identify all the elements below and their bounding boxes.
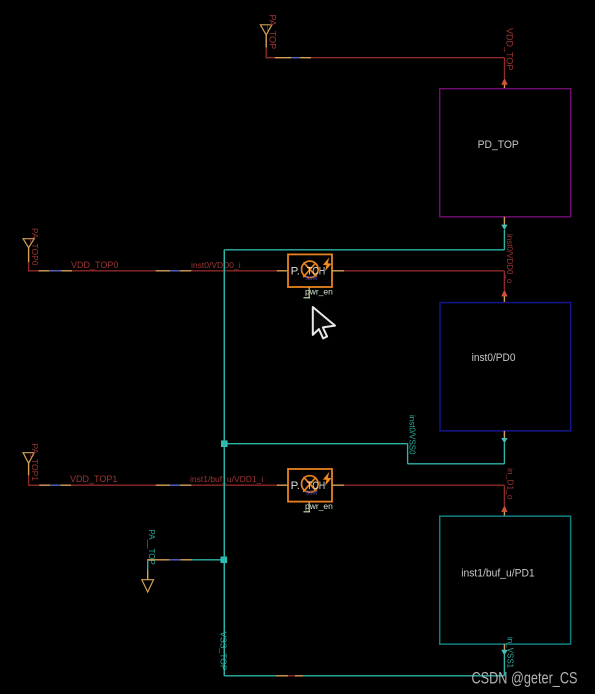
svg-text:pwr_en: pwr_en	[305, 287, 333, 297]
svg-text:VSS_TOP: VSS_TOP	[219, 632, 229, 671]
svg-text:VDD_TOP1: VDD_TOP1	[70, 474, 117, 484]
power switch U0 box	[288, 254, 332, 287]
pin stub inst1 PD1 top	[503, 512, 505, 517]
wire net inst0/VDD0_o horizontal	[344, 270, 504, 272]
wire net VSS_TOP branch vertical	[147, 559, 149, 570]
port PA_TOP0	[23, 239, 34, 248]
pin stub inst0/PD0 bottom	[503, 431, 505, 438]
svg-text:P.: P.	[291, 480, 300, 492]
svg-text:VDD_TOP: VDD_TOP	[505, 28, 515, 70]
wire net inst0/VSS0 upper horizontal	[224, 443, 407, 445]
wire net VDD_TOP1 horizontal	[29, 484, 277, 486]
svg-text:PA_TOP: PA_TOP	[268, 15, 278, 50]
wire net VSS_TOP horizontal top run	[224, 249, 504, 251]
svg-text:inst1/buf_u/PD1: inst1/buf_u/PD1	[461, 568, 535, 580]
switch icon lightning bolt U1	[323, 472, 332, 486]
wire net VSS_TOP branch horizontal	[148, 559, 225, 561]
arrow out of PD_TOP bottom	[501, 225, 507, 230]
wire net inst0/VSS0 lower horizontal	[408, 463, 505, 465]
svg-text:PA_TOP0: PA_TOP0	[30, 228, 40, 266]
dangling marker U0 enable	[304, 297, 311, 299]
switch icon circle U1	[302, 476, 319, 493]
pin stub switch U1 left	[277, 484, 288, 486]
svg-text:inst0/VSS0: inst0/VSS0	[408, 415, 417, 455]
pin stub inst1 PD1 bottom	[503, 644, 505, 650]
wire net in_D1_o horizontal	[344, 484, 504, 486]
arrow into inst0/PD0 top	[501, 290, 507, 297]
power domain box PD_TOP	[440, 89, 571, 217]
pin stub PD_TOP bottom	[503, 217, 505, 225]
wire net VSS_TOP main vertical	[223, 250, 225, 676]
wire net VSS_TOP bottom horizontal	[224, 675, 504, 677]
pin stub switch U1 enable	[308, 502, 310, 512]
pin stub PA_TOP1	[28, 463, 30, 475]
svg-text:PD_TOP: PD_TOP	[478, 139, 519, 151]
junction VSS_TOP / inst0 VSS	[221, 440, 228, 447]
junction VSS_TOP / PA__TOP branch	[221, 557, 228, 564]
wire net VDD_TOP vertical drop to PD_TOP	[504, 58, 506, 78]
wire net VSS_TOP drop from PD_TOP	[503, 230, 505, 250]
svg-text:in_VSS1: in_VSS1	[506, 637, 515, 669]
wire net inst0/VSS0 vertical at pin	[503, 443, 505, 464]
wire net inst0/VSS0 jog vertical	[407, 444, 409, 464]
switch icon cross U0	[304, 262, 317, 276]
svg-text:inst0/VDD0_o: inst0/VDD0_o	[505, 234, 514, 284]
port PA__TOP (bottom ground port)	[142, 580, 154, 592]
svg-text:inst0/VDD0_i: inst0/VDD0_i	[191, 260, 241, 270]
pin stub PD_TOP top	[504, 80, 506, 89]
arrow into PD_TOP top pin	[501, 78, 508, 85]
svg-text:inst1/buf_u/VDD1_i: inst1/buf_u/VDD1_i	[190, 474, 263, 484]
svg-text:ssw: ssw	[306, 489, 319, 496]
pin stub PA_TOP0	[28, 248, 30, 263]
pin stub switch U0 right	[332, 270, 344, 272]
pin stub switch U1 right	[332, 484, 344, 486]
arrow out of inst1 PD1 bottom	[501, 650, 507, 656]
wire net VDD_TOP1 vertical	[28, 475, 30, 486]
power switch U1 box	[288, 469, 332, 502]
svg-text:PA_TOP1: PA_TOP1	[30, 444, 40, 482]
arrow into inst1 PD1 top	[501, 505, 507, 512]
svg-text:in_D1_o: in_D1_o	[506, 468, 516, 500]
svg-text:CSDN @geter_CS: CSDN @geter_CS	[472, 670, 578, 688]
arrow out of inst0/PD0 bottom	[501, 438, 507, 443]
svg-text:pwr_en: pwr_en	[305, 501, 333, 511]
svg-text:inst0/PD0: inst0/PD0	[472, 352, 516, 364]
pin stub inst0/PD0 top	[503, 296, 505, 303]
wire net VDD_TOP0 horizontal	[29, 270, 277, 272]
port PA_TOP1	[23, 453, 34, 464]
mouse cursor	[313, 307, 335, 338]
pin stub switch U0 left	[277, 270, 288, 272]
wire net in_D1_o vertical	[503, 485, 505, 506]
svg-text:ssw: ssw	[306, 275, 319, 282]
wire net VDD_TOP0 vertical	[28, 262, 30, 271]
switch icon circle U0	[302, 261, 319, 278]
switch icon cross U1	[304, 477, 317, 491]
pin stub of PA_TOP	[265, 35, 267, 48]
power domain box inst0/PD0	[440, 303, 571, 431]
wire net VDD_TOP horizontal run	[266, 57, 504, 59]
dangling marker U1 enable	[304, 511, 311, 513]
wire net in_VSS1 vertical	[503, 655, 505, 676]
power domain box inst1/buf_u/PD1	[440, 516, 571, 644]
wire net VSS_TOP main vertical overdraw	[223, 250, 225, 676]
switch icon lightning bolt U0	[323, 257, 332, 271]
port PA_TOP (top supply port symbol)	[260, 25, 272, 35]
wire net VDD_TOP vertical from port	[265, 48, 267, 59]
wire net inst0/VDD0_o vertical	[503, 271, 505, 290]
pin stub PA__TOP	[147, 570, 149, 580]
svg-text:VDD_TOP0: VDD_TOP0	[71, 260, 118, 270]
svg-text:P.: P.	[291, 265, 300, 277]
pin stub switch U0 enable	[308, 287, 310, 298]
